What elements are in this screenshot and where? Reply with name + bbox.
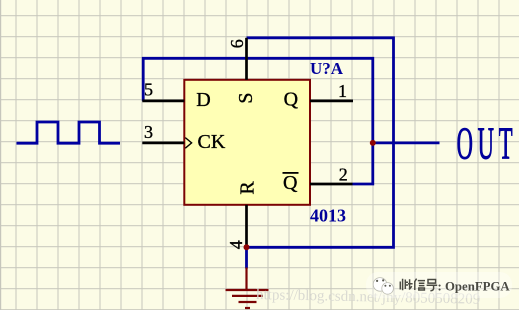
pin name D <box>196 89 210 111</box>
wechat badge halo <box>366 272 512 298</box>
svg-text:1: 1 <box>338 81 347 101</box>
pin 4 (R input) <box>245 205 248 248</box>
svg-text:5: 5 <box>144 79 153 99</box>
wire: R junction to ground <box>245 247 248 268</box>
svg-text:Q: Q <box>283 172 298 194</box>
glyph xin <box>415 279 425 290</box>
ground <box>226 268 269 309</box>
wechat id text <box>400 279 510 294</box>
svg-text:6: 6 <box>227 39 247 48</box>
wechat icon <box>373 278 393 295</box>
pin name R <box>236 181 258 195</box>
wire: feedback Q-bar to D <box>143 58 373 184</box>
pin number 1 <box>338 81 347 101</box>
svg-text:CK: CK <box>198 131 226 153</box>
value 4013 <box>310 206 346 226</box>
pin name S <box>235 92 257 103</box>
svg-text:3: 3 <box>144 122 153 142</box>
svg-text:D: D <box>196 89 210 111</box>
pin name CK <box>198 131 226 153</box>
pin name Q <box>284 89 299 111</box>
pin number 3 <box>144 122 153 142</box>
net label OUT <box>457 118 518 169</box>
pin 6 (S input) <box>245 38 248 80</box>
clock chevron <box>185 138 191 149</box>
clock waveform <box>17 122 121 143</box>
pin name Q-bar <box>283 172 299 194</box>
svg-text:2: 2 <box>339 165 348 185</box>
colon and name <box>438 280 511 294</box>
watermark url <box>256 287 480 308</box>
svg-text:U?A: U?A <box>310 59 344 78</box>
svg-text:4: 4 <box>226 240 246 249</box>
svg-text:4013: 4013 <box>310 206 346 226</box>
svg-text:OUT: OUT <box>457 118 518 169</box>
designator U?A <box>310 59 344 78</box>
flip-flop U?A body (4013) <box>184 80 310 205</box>
svg-text:S: S <box>235 92 257 103</box>
pin number 2 <box>339 165 348 185</box>
pin 1 (Q output) <box>310 100 353 103</box>
pin number 4 <box>226 240 246 249</box>
svg-text:R: R <box>236 181 258 195</box>
wire: OUT <box>373 141 440 144</box>
svg-text:: OpenFPGA: : OpenFPGA <box>438 280 511 294</box>
glyph hao <box>427 280 438 291</box>
junction dot: OUT tap on feedback wire <box>370 140 376 146</box>
pin number 6 <box>227 39 247 48</box>
pin number 5 <box>144 79 153 99</box>
wire: S and R tie (top-right loop) <box>247 38 394 248</box>
glyph wei <box>400 279 412 291</box>
svg-text:Q: Q <box>284 89 299 111</box>
junction dot: R to ground <box>244 244 250 250</box>
pin 5 (D input) <box>142 100 184 103</box>
pin 3 (CK input) <box>142 142 184 145</box>
pin 2 (Q-bar output) <box>310 183 353 186</box>
